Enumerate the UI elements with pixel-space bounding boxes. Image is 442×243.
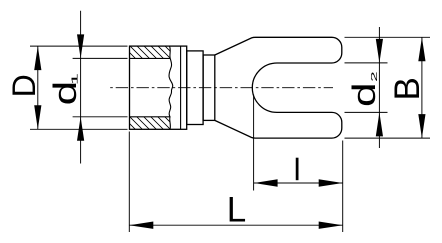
d2 arrow up (outside bottom) [376, 112, 383, 136]
dimension l line [254, 182, 343, 184]
d2 arrow down (outside top) [376, 39, 383, 63]
break line (freehand) [169, 46, 173, 129]
D extension lines [30, 46, 128, 129]
L arrow left [129, 222, 153, 229]
d1 arrow up (outside bottom) [77, 117, 84, 141]
svg-text:2: 2 [370, 71, 379, 81]
shared extension line right (l and L) [342, 141, 344, 233]
hatch top band (insulation section) [118, 41, 189, 63]
metal barrel step 2 [203, 55, 215, 120]
dimension L line [129, 224, 342, 226]
l arrow left [254, 179, 278, 186]
inner band edges [130, 58, 171, 116]
d2 extension lines [345, 63, 388, 113]
dimension B line [421, 37, 423, 138]
arrowheads [34, 34, 425, 229]
label l [296, 158, 299, 181]
L arrow right [319, 222, 343, 229]
svg-text:L: L [227, 191, 246, 230]
hatch bottom band (insulation section) [118, 112, 189, 134]
B extension lines [345, 37, 431, 138]
insulation barrel outline [130, 37, 342, 138]
dimension D line [37, 46, 39, 129]
svg-text:1: 1 [70, 73, 79, 85]
B arrow up [418, 37, 425, 61]
metal barrel step 1 [187, 51, 203, 125]
svg-text:D: D [6, 74, 42, 97]
d1 arrow down (outside top) [77, 34, 84, 58]
svg-text:B: B [388, 77, 427, 100]
d1 extension lines [73, 58, 128, 116]
insulation end rim [180, 46, 182, 129]
l arrow right [319, 179, 343, 186]
centerline [110, 87, 333, 89]
L extension line left [128, 132, 130, 233]
D arrow down [34, 105, 41, 129]
D arrow up [34, 46, 41, 70]
svg-text:d: d [347, 82, 383, 107]
l extension line left [253, 95, 255, 191]
dimension d2 line [378, 27, 380, 148]
B arrow down [418, 114, 425, 138]
fork tongue outline [215, 37, 342, 138]
dimension d1 line [80, 11, 82, 164]
